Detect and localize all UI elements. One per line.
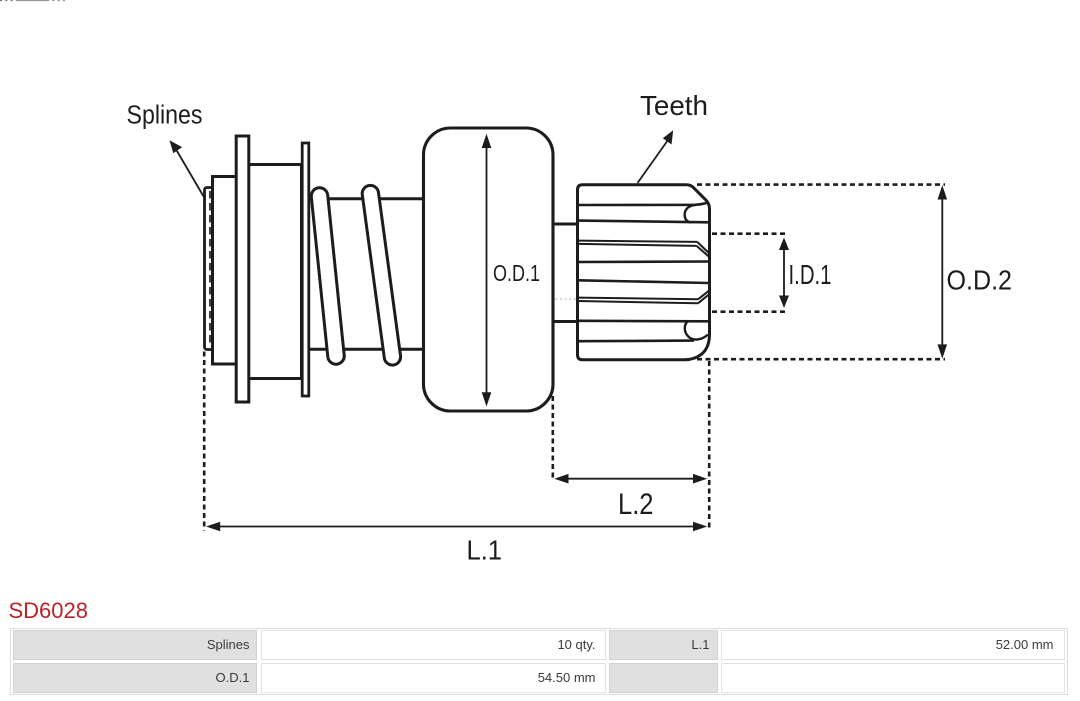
- small shaft to pinion: [553, 223, 578, 226]
- L.1 left dashed extension: [203, 352, 206, 531]
- I.D.1 bottom dashed extension: [712, 310, 785, 313]
- gear tooth cap top: [685, 205, 696, 222]
- O.D.2 dimension arrow: [941, 197, 943, 347]
- flange 2: [302, 143, 309, 396]
- gear groove A: [579, 241, 709, 257]
- svg-text:I.D.1: I.D.1: [789, 259, 832, 290]
- top-left clipped artifact: [0, 0, 66, 2]
- svg-text:L.2: L.2: [618, 488, 654, 521]
- spring bar 1: [311, 188, 344, 364]
- pinion gear outline: [578, 185, 710, 360]
- collar: [213, 177, 237, 365]
- cylinder between flanges: [248, 165, 302, 379]
- svg-text:O.D.1: O.D.1: [493, 260, 540, 286]
- shaft top line: [309, 197, 425, 200]
- spring bar 2: [362, 185, 400, 365]
- L.1 dimension arrow: [218, 526, 695, 528]
- gear groove B: [579, 291, 709, 304]
- svg-text:Splines: Splines: [127, 102, 203, 130]
- flange 1: [236, 136, 249, 402]
- Splines leader arrow: [176, 149, 205, 199]
- L.2 / L.1 right dashed extension: [708, 361, 711, 531]
- centerline dotted: [514, 298, 700, 300]
- main body: [424, 128, 554, 411]
- Teeth leader arrow: [638, 137, 671, 184]
- spec table: [10, 628, 1068, 696]
- part number: [9, 598, 89, 624]
- splined shaft: [205, 188, 214, 350]
- I.D.1 top dashed extension: [712, 232, 785, 235]
- svg-text:L.1: L.1: [467, 534, 503, 565]
- L.2 left dashed extension: [551, 396, 554, 481]
- O.D.2 bottom dashed extension: [697, 358, 945, 361]
- I.D.1 dimension arrow: [783, 246, 785, 299]
- gear tooth lines: [579, 202, 709, 341]
- svg-text:O.D.2: O.D.2: [947, 265, 1013, 296]
- O.D.2 top dashed extension: [697, 183, 945, 186]
- L.2 dimension arrow: [566, 478, 695, 480]
- svg-text:Teeth: Teeth: [640, 90, 708, 121]
- O.D.1 dimension arrow: [486, 147, 488, 394]
- gear tooth cap bottom: [685, 321, 708, 339]
- shaft bottom line: [309, 348, 425, 351]
